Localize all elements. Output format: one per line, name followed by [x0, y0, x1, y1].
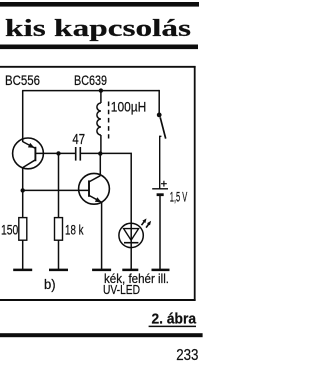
node: junction dot Q1 collector / Q2 base: [21, 188, 25, 192]
page number 233: [176, 347, 198, 364]
svg-text:kis kapcsolás: kis kapcsolás: [5, 15, 191, 42]
wire: rail down to switch: [158, 90, 160, 113]
svg-text:BC639: BC639: [74, 72, 107, 88]
svg-text:UV-LED: UV-LED: [103, 283, 140, 297]
transistor Q1 BC556 (PNP): [13, 138, 44, 169]
capacitor C1 47: [76, 147, 81, 161]
resistor R1 150: [19, 218, 27, 269]
inductor L1 100µH: [97, 91, 101, 154]
schematic frame bottom border: [0, 299, 196, 301]
svg-text:150: 150: [1, 222, 18, 238]
svg-text:b): b): [44, 276, 56, 292]
wire: Q1 emitter up to top rail: [22, 91, 24, 142]
wire: Q1 base lead: [35, 152, 75, 154]
switch S1: [157, 113, 166, 189]
resistor R2 18k: [55, 218, 63, 269]
node: junction dot base line / R2 top: [56, 151, 60, 155]
inductor L1 core (dashed): [108, 102, 110, 139]
node: junction dot C1 / L1 bottom / Q2 collector: [98, 151, 102, 155]
LED D1: [119, 223, 143, 247]
svg-text:18 k: 18 k: [65, 221, 84, 237]
ground (R1): [13, 269, 32, 272]
page footer rule: [0, 333, 203, 337]
label kék, fehér ill.: [104, 272, 169, 286]
wire: Q2 base lead from Q1 collector: [23, 189, 89, 191]
svg-text:233: 233: [176, 347, 198, 364]
svg-text:1,5 V: 1,5 V: [170, 188, 188, 204]
ground (Q2 emitter): [92, 269, 111, 272]
svg-text:47: 47: [72, 131, 85, 148]
label 100µH: [111, 99, 147, 115]
wire: Q1 collector down: [22, 168, 24, 218]
wire: C1 right to LED drop: [80, 153, 131, 269]
ground (R2): [49, 269, 68, 272]
svg-text:2. ábra: 2. ábra: [152, 310, 197, 327]
header bottom bar: [0, 45, 198, 50]
label 18 k: [65, 221, 84, 237]
label 47: [72, 131, 85, 148]
caption 2. ábra: [149, 310, 197, 327]
header title "kis kapcsolás": [5, 15, 191, 42]
schematic frame top border: [0, 66, 196, 68]
label 1,5V: [170, 188, 188, 204]
label BC639: [74, 72, 107, 88]
svg-text:BC556: BC556: [5, 72, 40, 88]
svg-text:100µH: 100µH: [111, 99, 147, 115]
wire: R2 top lead: [58, 153, 60, 217]
ground (LED): [122, 269, 138, 272]
LED D1 light arrows: [142, 218, 152, 227]
label b): [44, 276, 56, 292]
node: junction dot rail / L1 top: [99, 88, 103, 92]
battery BT1 1.5V: [152, 181, 168, 269]
ground (battery): [152, 269, 170, 272]
label UV-LED: [103, 283, 140, 297]
transistor Q2 BC639 (NPN): [79, 154, 110, 269]
wire: top supply rail: [22, 90, 159, 92]
label 150: [1, 222, 18, 238]
label BC556: [5, 72, 40, 88]
header top bar: [0, 2, 199, 7]
schematic frame right border: [194, 66, 196, 301]
